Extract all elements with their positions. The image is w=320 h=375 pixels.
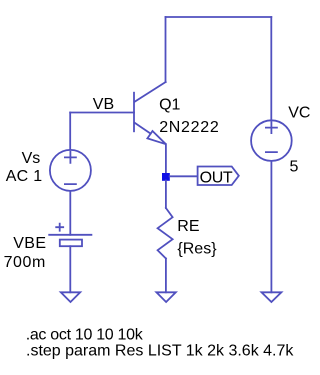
wire Vs to VBE (69, 191, 71, 235)
svg-text:VC: VC (288, 105, 310, 122)
wire RE to ground (165, 259, 167, 293)
svg-text:Vs: Vs (22, 150, 41, 167)
svg-text:OUT: OUT (200, 169, 233, 186)
voltage source Vs (50, 150, 91, 191)
ground (under VC) (262, 292, 282, 302)
ground (under VBE) (61, 292, 80, 302)
svg-text:2N2222: 2N2222 (159, 119, 219, 136)
svg-text:.ac oct 10 10 10k: .ac oct 10 10 10k (26, 327, 144, 344)
node OUT flag (198, 167, 239, 186)
node OUT junction (162, 173, 170, 181)
node VB wire (base) (70, 112, 134, 114)
wire VC bottom vertical (270, 161, 272, 292)
resistor RE (158, 208, 173, 259)
battery VBE (49, 234, 91, 236)
wire junction to RE (165, 181, 167, 208)
svg-text:VBE: VBE (13, 235, 46, 252)
wire top horizontal collector to VC (166, 16, 272, 18)
ground (under RE) (156, 292, 175, 302)
svg-text:700m: 700m (4, 254, 46, 271)
svg-text:VB: VB (93, 96, 114, 113)
svg-text:Q1: Q1 (159, 96, 180, 113)
svg-text:{Res}: {Res} (177, 241, 217, 258)
wire VBE to ground (69, 246, 71, 292)
wire VC top vertical (270, 17, 272, 120)
transistor Q1 (133, 93, 135, 132)
wire emitter vertical (165, 144, 167, 173)
svg-text:AC 1: AC 1 (6, 168, 43, 185)
wire collector vertical (165, 17, 167, 82)
svg-text:5: 5 (290, 159, 299, 176)
wire Vs top vertical (69, 113, 71, 150)
voltage source VC (251, 120, 292, 161)
svg-text:RE: RE (177, 218, 199, 235)
svg-text:.step param Res LIST 1k 2k 3.6: .step param Res LIST 1k 2k 3.6k 4.7k (26, 342, 294, 359)
wire junction to OUT flag (170, 175, 198, 177)
